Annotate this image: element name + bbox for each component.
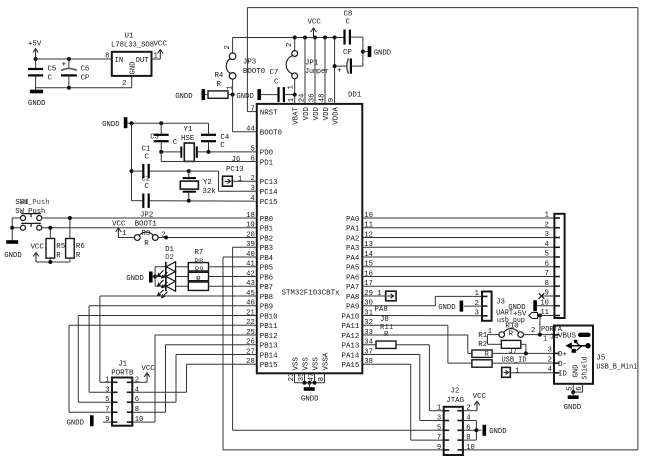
wire Y2 top to PC14 (189, 171, 257, 191)
svg-text:+: + (337, 68, 342, 76)
svg-text:IN: IN (115, 57, 124, 65)
svg-text:PA2: PA2 (346, 235, 359, 243)
wire VCC rail (233, 36, 345, 104)
wire PA15 to J2 pin7 (362, 364, 443, 440)
svg-text:PB3: PB3 (260, 245, 273, 253)
resistor R2 (472, 341, 554, 367)
capacitor C1 (132, 146, 189, 179)
svg-text:J5: J5 (596, 354, 605, 362)
svg-text:R3: R3 (142, 230, 151, 238)
svg-text:STM32F103CBTx: STM32F103CBTx (282, 289, 341, 297)
svg-text:3: 3 (105, 386, 109, 394)
connector J5 USB_B_Mini (543, 326, 638, 384)
svg-text:C6: C6 (81, 66, 90, 74)
LED D3 (158, 281, 189, 298)
svg-text:PA11: PA11 (342, 323, 360, 331)
wire PB12 to J1 pin10 (132, 335, 256, 422)
svg-text:PB12: PB12 (260, 333, 278, 341)
resistor R9 (188, 267, 256, 291)
svg-text:PB1: PB1 (260, 226, 274, 234)
svg-text:11: 11 (364, 222, 373, 230)
svg-text:PA10: PA10 (342, 313, 360, 321)
svg-text:NRST: NRST (260, 109, 278, 117)
svg-text:18: 18 (246, 212, 255, 220)
svg-text:PD0: PD0 (260, 149, 273, 157)
svg-text:VDD: VDD (313, 106, 321, 120)
svg-text:6: 6 (466, 424, 470, 432)
svg-text:2: 2 (286, 43, 294, 47)
wire PA11 to R2 to D- (362, 325, 472, 363)
svg-text:Shield: Shield (582, 357, 590, 380)
svg-text:R9: R9 (195, 267, 204, 275)
no-connect X at J4 pin9 (539, 293, 555, 299)
connector J2 JTAG (437, 388, 475, 456)
svg-text:6: 6 (135, 396, 139, 404)
svg-text:VCC: VCC (154, 41, 168, 49)
svg-text:R8: R8 (195, 258, 204, 266)
svg-text:VDD: VDD (303, 106, 311, 120)
svg-text:VCC: VCC (308, 18, 322, 26)
svg-text:10: 10 (466, 444, 475, 452)
wire J2 pins 4 6 8 ground tie (463, 421, 482, 441)
svg-text:8: 8 (545, 280, 549, 288)
svg-text:GNDD: GNDD (4, 252, 22, 260)
capacitor C6 polarized (61, 59, 90, 88)
svg-text:8: 8 (105, 53, 109, 61)
svg-text:C: C (220, 142, 225, 150)
svg-text:13: 13 (364, 241, 373, 249)
svg-text:1: 1 (226, 86, 234, 90)
svg-text:PA15: PA15 (342, 362, 360, 370)
svg-text:34: 34 (364, 339, 373, 347)
svg-text:33: 33 (364, 329, 373, 337)
svg-text:C: C (145, 154, 150, 162)
svg-text:GNDD: GNDD (374, 50, 392, 58)
power flag VCC at J2 pin2 (463, 393, 487, 411)
svg-text:1: 1 (377, 290, 381, 298)
LED D1 (158, 246, 189, 278)
svg-text:6: 6 (576, 386, 584, 390)
resistor R6 (66, 216, 85, 260)
resistor R8 (188, 258, 256, 280)
svg-text:C: C (274, 79, 279, 87)
svg-text:R: R (76, 252, 81, 260)
svg-text:7: 7 (545, 270, 549, 278)
svg-text:39: 39 (246, 241, 255, 249)
svg-text:VSS: VSS (293, 357, 301, 371)
wire PA10 to J3 pin3 (362, 315, 482, 317)
svg-text:PA4: PA4 (346, 255, 360, 263)
wire NRST net big loop: chip NRST to J2 pin10 (247, 8, 638, 450)
svg-text:3: 3 (250, 185, 254, 193)
svg-text:PA13: PA13 (342, 343, 360, 351)
svg-text:21: 21 (246, 309, 255, 317)
svg-text:GNDD: GNDD (236, 93, 254, 101)
svg-text:1: 1 (475, 290, 479, 298)
svg-text:14: 14 (364, 251, 373, 259)
wire PB11 to J1 pin7 (69, 325, 257, 412)
svg-text:J7: J7 (509, 348, 518, 356)
capacitor C4 (201, 123, 230, 152)
svg-text:VCC: VCC (112, 221, 126, 229)
svg-text:9: 9 (437, 444, 441, 452)
svg-text:PB6: PB6 (260, 274, 273, 282)
svg-text:VBAT: VBAT (293, 106, 301, 124)
svg-text:7: 7 (105, 406, 109, 414)
svg-text:D+: D+ (558, 351, 567, 359)
svg-text:PC15: PC15 (260, 199, 278, 207)
jumper R10 (488, 323, 540, 339)
svg-text:U1: U1 (125, 33, 134, 41)
svg-text:BOOT0: BOOT0 (243, 68, 265, 76)
svg-text:R: R (196, 276, 201, 284)
svg-text:3: 3 (437, 415, 441, 423)
power flag VCC at J1 pin2 (132, 365, 155, 382)
switch SW1 SW_Push (12, 199, 257, 221)
svg-text:40: 40 (246, 251, 255, 259)
wire PB14 to J1 pin6 (132, 355, 256, 403)
svg-text:CP: CP (343, 49, 352, 57)
wire LED common (153, 267, 165, 287)
svg-text:42: 42 (246, 270, 255, 278)
resistor R4 (205, 72, 228, 98)
svg-text:J3: J3 (496, 299, 505, 307)
svg-text:3: 3 (475, 310, 479, 318)
svg-text:BOOT0: BOOT0 (260, 130, 282, 138)
wire PB9 to J1 pin3 (89, 306, 257, 393)
wire PB4 to J2 pin9 (223, 257, 444, 450)
resistor R1 (472, 332, 554, 359)
svg-text:2: 2 (531, 327, 535, 335)
svg-text:2: 2 (250, 175, 254, 183)
wire PA12 to R1 to D+ (362, 335, 472, 353)
power flag VCC on rail (308, 18, 322, 37)
svg-text:PB0: PB0 (260, 216, 273, 224)
ground GNDD under J5 (564, 397, 582, 412)
ground GNDD for LEDs (126, 272, 155, 284)
svg-text:PA3: PA3 (346, 245, 359, 253)
regulator U1 L78L33_SO8 (105, 33, 158, 89)
svg-text:USB_ID: USB_ID (502, 357, 528, 365)
svg-text:15: 15 (364, 261, 373, 269)
svg-text:R7: R7 (195, 249, 204, 257)
svg-text:5: 5 (567, 386, 575, 390)
ground GNDD at J2 (484, 425, 507, 436)
LED D2 (158, 254, 189, 288)
ground GNDD at J4 pin10 (508, 300, 554, 312)
svg-text:C: C (48, 75, 53, 83)
svg-text:43: 43 (246, 280, 255, 288)
wire VSS pins to ground (295, 373, 325, 387)
svg-text:R10: R10 (505, 323, 518, 331)
wire PD0 osc row (159, 150, 257, 154)
wires PA0-PA7 to J4 (362, 218, 554, 286)
svg-text:1: 1 (122, 230, 126, 238)
svg-text:45: 45 (246, 290, 255, 298)
svg-text:5: 5 (545, 251, 549, 259)
wire J5 pins 5 6 to ground (567, 384, 584, 397)
svg-text:UART: UART (496, 309, 514, 317)
connector J3 UART (475, 290, 514, 321)
svg-text:J1: J1 (118, 361, 127, 369)
svg-text:32k: 32k (202, 188, 216, 196)
svg-text:1: 1 (545, 212, 549, 220)
svg-text:PB13: PB13 (260, 343, 278, 351)
svg-text:Y2: Y2 (203, 179, 212, 187)
ground GNDD near C7 (236, 89, 259, 101)
svg-text:PD1: PD1 (260, 159, 274, 167)
ground GNDD right of C8 (361, 46, 392, 57)
svg-text:CP: CP (81, 75, 90, 83)
svg-text:PA12: PA12 (342, 333, 360, 341)
jumper JP3 BOOT0 (224, 38, 265, 95)
svg-text:GNDD: GNDD (564, 404, 582, 412)
wire PB13 to J1 pin8 (132, 345, 256, 412)
wire +5V rail to U1 (34, 57, 112, 61)
svg-text:37: 37 (364, 348, 373, 356)
svg-text:4: 4 (135, 386, 139, 394)
svg-text:D1: D1 (165, 246, 174, 254)
svg-text:GNDD: GNDD (489, 428, 507, 436)
svg-text:30: 30 (364, 300, 373, 308)
svg-text:PA8: PA8 (346, 294, 359, 302)
connector J1 PORTB (105, 361, 143, 426)
jumper J7 solder bridge (488, 335, 528, 356)
wire PB8 to J1 pin1 (100, 296, 257, 382)
svg-text:C7: C7 (270, 69, 279, 77)
svg-text:38: 38 (364, 358, 373, 366)
svg-text:PB15: PB15 (260, 362, 278, 370)
resistor R5 (46, 226, 65, 260)
svg-text:VDDA: VDDA (333, 106, 341, 124)
svg-text:1: 1 (515, 367, 519, 375)
svg-text:44: 44 (246, 126, 255, 134)
svg-text:PB4: PB4 (260, 255, 274, 263)
svg-text:7: 7 (437, 434, 441, 442)
svg-text:JP3: JP3 (243, 58, 256, 66)
svg-text:25: 25 (246, 329, 255, 337)
power flag VCC for R3 (112, 221, 126, 238)
svg-text:PA9: PA9 (346, 304, 359, 312)
svg-text:16: 16 (364, 270, 373, 278)
svg-text:GND: GND (130, 62, 138, 75)
svg-text:JP1: JP1 (305, 60, 319, 68)
svg-text:PA1: PA1 (346, 226, 360, 234)
wire PB3 to J2 pin5 (233, 247, 444, 430)
svg-text:DD1: DD1 (348, 92, 362, 100)
svg-text:VCC: VCC (141, 365, 155, 373)
svg-text:6: 6 (545, 260, 549, 268)
svg-text:L78L33_SO8: L78L33_SO8 (111, 42, 154, 50)
svg-text:2: 2 (122, 80, 126, 88)
svg-text:12: 12 (364, 231, 373, 239)
svg-text:GNDD: GNDD (67, 420, 85, 428)
global label PC13 (223, 166, 257, 186)
svg-text:29: 29 (364, 290, 373, 298)
ground GNDD at J3 pin2 (438, 301, 482, 312)
svg-text:PA0: PA0 (346, 216, 359, 224)
wire switches to ground (10, 218, 14, 242)
svg-text:C3: C3 (150, 134, 159, 142)
jumper JP2 / capacitor C2 (132, 176, 257, 220)
wire R10 pin2 to +5V and VBUS (538, 316, 554, 337)
svg-text:C4: C4 (220, 134, 229, 142)
capacitor C8 (344, 11, 363, 45)
svg-text:GNDD: GNDD (126, 275, 144, 283)
svg-text:3: 3 (545, 231, 549, 239)
wire PD1 row (161, 152, 257, 162)
jumper JP1 (286, 38, 329, 104)
svg-text:GND: GND (572, 365, 580, 378)
wire PB10 to J1 pin5 (78, 316, 256, 403)
svg-text:PC14: PC14 (260, 189, 278, 197)
svg-text:PB2: PB2 (260, 235, 273, 243)
svg-text:PB10: PB10 (260, 313, 278, 321)
svg-text:GNDD: GNDD (28, 100, 46, 108)
svg-text:VCC: VCC (31, 244, 45, 252)
svg-text:1: 1 (288, 85, 296, 89)
power flag +5V (28, 41, 42, 60)
svg-text:2: 2 (224, 45, 232, 49)
svg-text:R: R (56, 252, 61, 260)
svg-text:1: 1 (437, 405, 441, 413)
svg-text:4: 4 (250, 195, 254, 203)
svg-text:5: 5 (437, 424, 441, 432)
svg-text:PC13: PC13 (226, 166, 244, 174)
wire R5 R6 bottoms to VCC (36, 258, 70, 264)
ground GNDD left of R4 (175, 89, 203, 101)
wire PA9 to J3 pin1 (362, 296, 482, 305)
global label USB_ID (502, 357, 555, 378)
svg-text:R: R (217, 81, 222, 89)
svg-text:J8: J8 (380, 316, 389, 324)
svg-text:1: 1 (488, 328, 492, 336)
svg-text:C: C (145, 183, 150, 191)
svg-text:GNDD: GNDD (438, 304, 456, 312)
svg-text:22: 22 (246, 319, 255, 327)
svg-text:32: 32 (364, 319, 373, 327)
switch SW2 SW_Push (12, 223, 257, 230)
svg-text:J6: J6 (232, 156, 241, 164)
crystal Y2 32k (180, 169, 216, 203)
power flag VCC at U1 output (152, 41, 168, 60)
svg-text:PA7: PA7 (346, 284, 359, 292)
ground GNDD under chip (301, 389, 319, 403)
svg-text:PORTB: PORTB (111, 370, 134, 378)
svg-text:PA5: PA5 (346, 265, 359, 273)
svg-text:8: 8 (135, 406, 139, 414)
svg-text:JTAG: JTAG (446, 397, 464, 405)
svg-text:R1: R1 (478, 332, 487, 340)
svg-text:VSS: VSS (313, 357, 321, 371)
svg-text:R: R (144, 240, 149, 248)
jumper R3 (118, 230, 256, 248)
wire bottom gnd rail (36, 76, 132, 90)
svg-text:Y1: Y1 (184, 126, 193, 134)
capacitor CP polarized (333, 37, 363, 76)
svg-text:C1: C1 (142, 146, 151, 154)
svg-text:4: 4 (548, 366, 552, 374)
svg-text:9: 9 (105, 416, 109, 424)
microcontroller DD1 STM32F103CBTx (246, 92, 373, 382)
resistor R11 / jumper J8 (376, 316, 396, 348)
svg-text:41: 41 (246, 261, 255, 269)
svg-text:R: R (485, 351, 490, 359)
svg-text:VSS: VSS (303, 357, 311, 371)
svg-text:7: 7 (250, 105, 254, 113)
resistor R7 (188, 249, 256, 271)
svg-text:10: 10 (135, 416, 144, 424)
svg-text:VSSA: VSSA (323, 352, 331, 370)
svg-text:PA8: PA8 (375, 306, 388, 314)
svg-text:17: 17 (364, 280, 373, 288)
svg-text:2: 2 (545, 221, 549, 229)
svg-text:R: R (509, 331, 514, 339)
svg-text:HSE: HSE (181, 135, 195, 143)
svg-text:C8: C8 (344, 11, 353, 19)
svg-text:1: 1 (238, 176, 242, 184)
svg-text:1: 1 (105, 376, 109, 384)
svg-text:10: 10 (364, 212, 373, 220)
svg-text:J2: J2 (451, 388, 460, 396)
svg-text:20: 20 (246, 231, 255, 239)
wire gnd rail to C3 C4 (130, 121, 209, 125)
power label +5V at J4 pin11 (513, 311, 554, 319)
svg-text:VCC: VCC (473, 393, 487, 401)
svg-text:2: 2 (548, 356, 552, 364)
svg-text:R5: R5 (56, 243, 65, 251)
svg-text:8: 8 (466, 434, 470, 442)
wire BOOT0 net: R4/JP3 down to chip (228, 93, 257, 132)
power flag VCC under R5 (31, 244, 45, 263)
svg-text:C: C (173, 139, 178, 147)
svg-text:+: + (62, 61, 67, 69)
svg-text:ID: ID (558, 371, 567, 379)
svg-text:6: 6 (250, 155, 254, 163)
svg-text:2: 2 (135, 376, 139, 384)
svg-text:2: 2 (466, 405, 470, 413)
USB icon (565, 333, 591, 353)
svg-text:26: 26 (246, 339, 255, 347)
svg-text:PA6: PA6 (346, 274, 359, 282)
svg-text:R4: R4 (215, 72, 224, 80)
svg-text:GNDD: GNDD (301, 395, 319, 403)
svg-text:R2: R2 (478, 341, 487, 349)
wire gnd vertical to C1 C2 (130, 123, 134, 201)
svg-text:PB11: PB11 (260, 323, 278, 331)
svg-text:+5V: +5V (28, 41, 42, 49)
svg-text:1: 1 (543, 336, 547, 344)
global label PA8 (362, 290, 396, 314)
svg-text:BOOT1: BOOT1 (135, 221, 158, 229)
wire PA13 through R11 to J2 pin1 (362, 345, 443, 411)
svg-text:GNDD: GNDD (102, 121, 120, 129)
svg-text:D2: D2 (165, 254, 174, 262)
svg-text:27: 27 (246, 348, 255, 356)
svg-text:SW_Push: SW_Push (15, 208, 45, 216)
svg-text:USB_B_Mini: USB_B_Mini (596, 363, 638, 371)
svg-text:OUT: OUT (135, 57, 149, 65)
svg-text:C: C (346, 19, 351, 27)
svg-text:GNDD: GNDD (175, 93, 193, 101)
svg-text:R6: R6 (76, 243, 85, 251)
svg-text:PB5: PB5 (260, 265, 273, 273)
svg-text:C5: C5 (48, 66, 57, 74)
svg-text:28: 28 (246, 358, 255, 366)
ground GNDD below C5 (28, 88, 46, 108)
capacitor C3 (150, 123, 178, 152)
ground GNDD crystal area (102, 117, 131, 129)
